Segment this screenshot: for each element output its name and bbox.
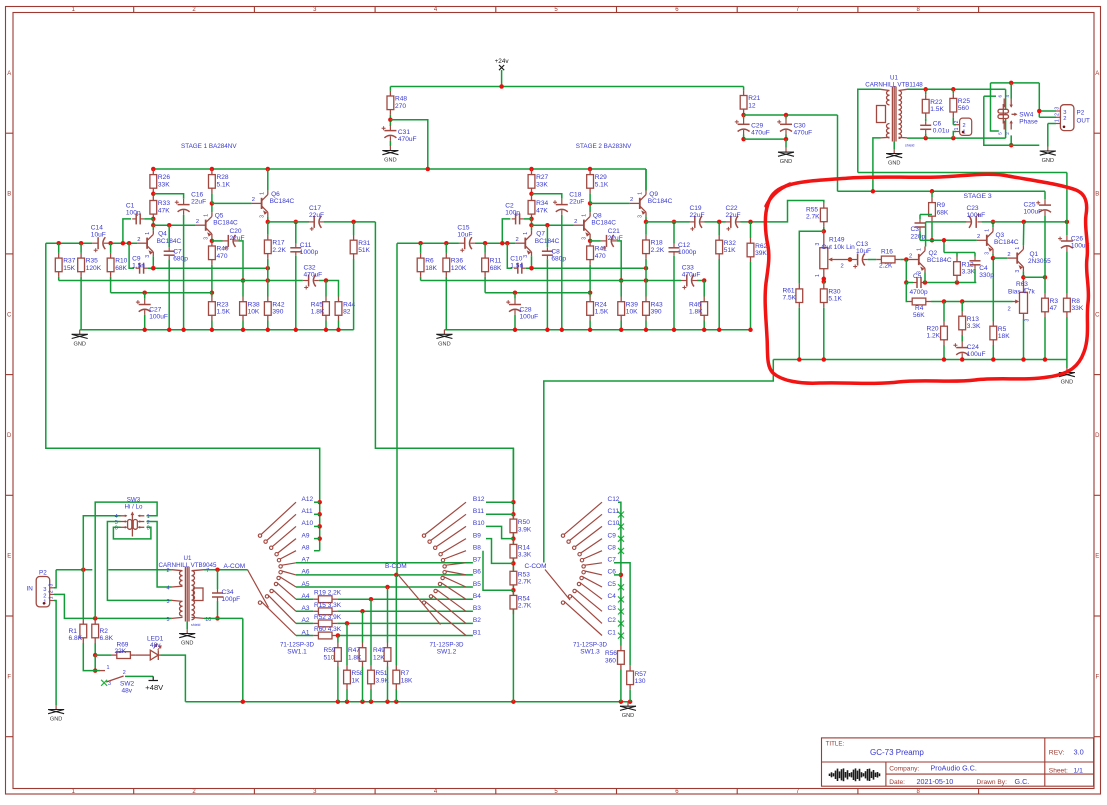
junction: [717, 328, 722, 333]
switch contact B1: [425, 601, 466, 635]
svg-text:SW4: SW4: [1019, 111, 1033, 118]
wire: [204, 617, 243, 619]
svg-text:C10: C10: [510, 256, 522, 263]
junction: [167, 223, 172, 228]
wire: [991, 82, 1040, 84]
junction: [317, 524, 322, 529]
svg-text:2: 2: [167, 568, 170, 574]
wire: [514, 315, 516, 330]
svg-text:120K: 120K: [451, 265, 467, 272]
svg-text:R18: R18: [651, 240, 663, 247]
wire: [589, 203, 591, 212]
switch contact C5: [583, 577, 602, 587]
svg-text:B4: B4: [473, 593, 481, 600]
svg-text:2: 2: [196, 219, 199, 225]
svg-text:270: 270: [395, 103, 406, 110]
wire: [314, 501, 320, 503]
svg-text:1.5n: 1.5n: [510, 263, 523, 270]
resistor R10: [107, 253, 114, 277]
wire: [389, 141, 391, 146]
svg-text:Out 10k Lin: Out 10k Lin: [822, 244, 856, 251]
wire: [337, 635, 473, 637]
wire: [445, 277, 447, 330]
junction: [702, 328, 707, 333]
capacitor C4: [970, 257, 981, 269]
junction: [991, 357, 996, 362]
svg-text:39K: 39K: [755, 250, 767, 257]
svg-text:100uF: 100uF: [1024, 209, 1043, 216]
resistor: [313, 608, 337, 615]
junction: [426, 167, 431, 172]
switch contact C2: [571, 595, 602, 623]
svg-text:C8: C8: [551, 249, 560, 256]
wire: [152, 256, 154, 268]
svg-text:470: 470: [217, 253, 228, 260]
wire SW3 pin5 to xfmr pin3: [107, 522, 171, 601]
svg-text:100p: 100p: [505, 210, 520, 217]
svg-text:1: 1: [1015, 247, 1021, 250]
svg-text:C26: C26: [1071, 236, 1083, 243]
wire: [338, 321, 340, 330]
junction: [545, 328, 550, 333]
junction: [511, 588, 516, 593]
svg-text:C21: C21: [608, 228, 620, 235]
wire: [924, 273, 926, 283]
switch contact A7: [282, 563, 296, 565]
svg-text:2: 2: [1007, 252, 1010, 258]
svg-text:18K: 18K: [401, 677, 413, 684]
svg-text:18K: 18K: [998, 333, 1010, 340]
wire row A5-B5: [296, 586, 473, 588]
wire: [920, 239, 932, 241]
wire: [267, 169, 269, 190]
wire to C-COM: [544, 360, 774, 563]
junction: [822, 357, 827, 362]
wire: [931, 191, 933, 197]
svg-text:R57: R57: [635, 671, 647, 678]
junction: [529, 266, 534, 271]
wire: [296, 598, 313, 600]
wire: [645, 169, 647, 190]
wire: [974, 253, 976, 257]
wire: [645, 169, 647, 190]
svg-text:C13: C13: [856, 241, 868, 248]
svg-text:5.1K: 5.1K: [595, 181, 609, 188]
svg-text:220p: 220p: [911, 233, 926, 240]
wire GND bus stage 2: [444, 329, 750, 331]
svg-text:STAGE 2 BA283NV: STAGE 2 BA283NV: [576, 143, 632, 150]
junction: [360, 609, 365, 614]
capacitor C6: [920, 121, 931, 133]
svg-text:33K: 33K: [536, 181, 548, 188]
wire to B-COM: [396, 243, 398, 575]
svg-text:shield: shield: [191, 623, 200, 627]
wire: [589, 321, 591, 330]
junction: [266, 266, 271, 271]
wire SW3 pin4 to R1: [83, 516, 120, 619]
wire GND bus stage 1: [80, 329, 354, 331]
svg-text:F: F: [1095, 674, 1099, 680]
svg-text:10K: 10K: [248, 309, 260, 316]
wire: [217, 570, 219, 589]
wire: [919, 231, 921, 240]
junction: [930, 189, 935, 194]
wire: [484, 243, 486, 253]
wire: [961, 358, 963, 360]
svg-text:2.7K: 2.7K: [518, 603, 532, 610]
svg-text:R46: R46: [689, 301, 701, 308]
svg-text:2: 2: [137, 237, 140, 243]
wire: [111, 292, 212, 294]
junction: [871, 189, 876, 194]
wire: [242, 281, 244, 297]
capacitor C26: [1058, 235, 1073, 251]
junction: [294, 328, 299, 333]
svg-text:C17: C17: [309, 205, 321, 212]
wire: [485, 292, 590, 294]
svg-text:2: 2: [1063, 116, 1066, 122]
switch contact B11: [431, 514, 466, 540]
junction: [923, 87, 928, 92]
junction: [210, 167, 215, 172]
svg-text:33K: 33K: [158, 181, 170, 188]
transistor Q7: [515, 230, 531, 256]
junction: [784, 137, 789, 142]
svg-text:R34: R34: [536, 200, 548, 207]
junction: [127, 241, 132, 246]
ground GND transformer: [186, 629, 188, 634]
resistor R11: [482, 253, 489, 277]
svg-text:R40: R40: [217, 246, 229, 253]
wire: [58, 277, 60, 281]
svg-text:22uF: 22uF: [191, 199, 206, 206]
svg-text:1.8K: 1.8K: [689, 309, 703, 316]
svg-text:BC184C: BC184C: [213, 220, 238, 227]
junction: [388, 117, 393, 122]
junction: [210, 290, 215, 295]
resistor R41: [587, 241, 594, 265]
wire: [925, 118, 927, 121]
wire: [445, 243, 447, 253]
junction: [336, 699, 341, 704]
resistor R23: [209, 297, 216, 321]
svg-text:GND: GND: [622, 713, 634, 719]
svg-text:15K: 15K: [63, 265, 75, 272]
wire V+ rail stages 1-2: [153, 168, 646, 170]
junction: [822, 229, 827, 234]
svg-text:C12: C12: [608, 496, 620, 503]
wire: [183, 215, 185, 330]
svg-text:C11: C11: [608, 508, 620, 515]
svg-text:A: A: [1095, 71, 1099, 77]
wire: [743, 115, 745, 119]
svg-text:R54: R54: [518, 596, 530, 603]
wiper SW1.3: [545, 570, 570, 601]
wire: [95, 670, 100, 672]
wire: [58, 243, 60, 253]
wire: [337, 667, 339, 702]
svg-text:3: 3: [48, 584, 54, 587]
svg-text:R11: R11: [490, 258, 502, 265]
resistor R43: [643, 297, 650, 321]
wire: [926, 221, 967, 223]
svg-text:C18: C18: [569, 192, 581, 199]
svg-text:B3: B3: [473, 605, 481, 612]
svg-text:5.1K: 5.1K: [828, 296, 842, 303]
wire: [925, 89, 927, 94]
junction: [702, 278, 707, 283]
junction: [848, 257, 853, 262]
wire: [992, 258, 994, 321]
resistor R29: [587, 169, 594, 193]
wire: [314, 538, 320, 540]
wire: [395, 575, 397, 665]
wire top feed: [858, 172, 1067, 174]
svg-text:560: 560: [958, 105, 969, 112]
capacitor C18: [553, 199, 568, 215]
capacitor C16: [175, 199, 190, 215]
junction: [324, 278, 329, 283]
wire to stage 3: [873, 138, 881, 191]
wire: [906, 282, 913, 284]
junction: [181, 328, 186, 333]
wire to stage rail: [390, 120, 427, 169]
svg-text:2: 2: [252, 197, 255, 203]
svg-text:Q2: Q2: [929, 250, 938, 257]
wire: [952, 117, 954, 125]
svg-text:A10: A10: [302, 520, 314, 527]
svg-text:E: E: [7, 554, 11, 560]
junction: [241, 328, 246, 333]
wire: [370, 689, 372, 702]
junction: [672, 220, 677, 225]
power +48V: [149, 676, 159, 680]
wire: [387, 587, 389, 643]
switch contact B5: [444, 577, 466, 587]
svg-text:R8: R8: [1072, 298, 1081, 305]
wire: [296, 610, 313, 612]
svg-text:3: 3: [638, 215, 644, 218]
resistor R12: [954, 257, 961, 281]
svg-text:2.7K: 2.7K: [806, 214, 820, 221]
svg-text:C2: C2: [505, 203, 514, 210]
wire: [94, 655, 96, 671]
resistor R28: [209, 169, 216, 193]
svg-text:BC184C: BC184C: [591, 220, 616, 227]
resistor R35: [78, 253, 85, 277]
svg-text:3: 3: [203, 237, 209, 240]
junction: [210, 328, 215, 333]
svg-text:2: 2: [123, 670, 126, 676]
svg-text:R7: R7: [401, 670, 410, 677]
svg-text:2: 2: [43, 593, 46, 599]
junction: [500, 241, 505, 246]
wire: [984, 95, 996, 97]
capacitor C21: [601, 235, 617, 250]
junction: [1037, 109, 1042, 114]
freehand red circle around stage 3: [765, 174, 1088, 383]
wire: [944, 252, 975, 254]
junction: [151, 217, 156, 222]
wire: [217, 601, 219, 618]
wire: [110, 277, 112, 293]
junction: [167, 328, 172, 333]
junction: [545, 223, 550, 228]
svg-text:C33: C33: [682, 265, 694, 272]
svg-text:B11: B11: [473, 508, 484, 515]
svg-text:2: 2: [630, 197, 633, 203]
svg-text:shield: shield: [905, 144, 914, 148]
svg-text:B8: B8: [473, 545, 481, 552]
svg-text:1: 1: [48, 596, 54, 599]
resistor: [510, 566, 517, 590]
junction: [644, 220, 649, 225]
svg-text:Q8: Q8: [593, 213, 602, 220]
junction: [588, 290, 593, 295]
svg-text:18K: 18K: [425, 265, 437, 272]
svg-text:C20: C20: [230, 228, 242, 235]
wire: [848, 259, 852, 261]
svg-text:390: 390: [651, 309, 662, 316]
wire: [484, 277, 486, 293]
wire: [1066, 317, 1068, 360]
resistor: [313, 632, 337, 639]
logo waveform: [830, 768, 880, 781]
junction: [619, 699, 624, 704]
junction: [1021, 275, 1026, 280]
svg-text:C14: C14: [91, 225, 103, 232]
svg-text:22K: 22K: [115, 648, 127, 655]
resistor: [384, 643, 391, 667]
ground GND stage3: [1066, 368, 1068, 373]
switch contact A2: [268, 595, 296, 623]
junction: [588, 167, 593, 172]
wire: [531, 192, 533, 194]
resistor R30: [820, 284, 827, 308]
svg-text:C8: C8: [608, 545, 617, 552]
wire: [353, 222, 355, 235]
wire: [620, 670, 622, 702]
resistor R20: [941, 321, 948, 345]
capacitor C12: [669, 244, 680, 256]
wire: [242, 321, 244, 330]
wire: [123, 219, 131, 243]
svg-text:5.1K: 5.1K: [217, 181, 231, 188]
svg-text:R53: R53: [518, 571, 530, 578]
resistor: [313, 620, 337, 627]
junction: [511, 561, 516, 566]
switch contact C4: [580, 583, 602, 599]
junction: [317, 536, 322, 541]
ground GND: [1047, 147, 1049, 152]
ground GND bottom: [627, 702, 629, 707]
switch contact B7: [446, 563, 466, 565]
junction: [317, 512, 322, 517]
wire: [893, 142, 895, 150]
svg-text:2: 2: [574, 219, 577, 225]
svg-text:R20: R20: [927, 326, 939, 333]
svg-text:33K: 33K: [1072, 305, 1084, 312]
junction: [317, 500, 322, 505]
resistor R44: [335, 297, 342, 321]
svg-text:3: 3: [167, 599, 170, 605]
wire: [387, 667, 389, 702]
wire: [95, 654, 111, 656]
svg-text:R30: R30: [828, 289, 840, 296]
svg-text:B9: B9: [473, 532, 481, 539]
connector P2 OUT: [1060, 105, 1074, 131]
junction: [513, 328, 518, 333]
wire: [614, 574, 621, 576]
wire: [267, 321, 269, 330]
junction: [1021, 357, 1026, 362]
junction: [951, 136, 956, 141]
wire: [1066, 251, 1068, 293]
svg-text:C-COM: C-COM: [525, 563, 547, 570]
wire input line: [56, 569, 92, 571]
svg-text:2: 2: [954, 120, 960, 123]
resistor R16: [876, 256, 900, 263]
svg-text:C25: C25: [1024, 202, 1036, 209]
svg-text:22uF: 22uF: [690, 212, 705, 219]
capacitor C22: [725, 216, 741, 231]
wire: [211, 321, 213, 330]
wire: [925, 133, 927, 138]
wire: [211, 293, 213, 297]
resistor R26: [150, 169, 157, 193]
junction: [904, 257, 909, 262]
wire: [589, 265, 591, 293]
wire: [645, 259, 647, 281]
wire: [590, 240, 601, 242]
svg-text:R51: R51: [376, 670, 388, 677]
svg-text:+24v: +24v: [495, 58, 510, 65]
svg-text:C2: C2: [608, 617, 617, 624]
wire: [362, 611, 364, 642]
svg-text:2: 2: [48, 590, 54, 593]
svg-text:470uF: 470uF: [794, 130, 813, 137]
svg-text:5: 5: [998, 132, 1003, 135]
svg-text:A11: A11: [302, 508, 313, 515]
wire: [905, 283, 908, 302]
svg-text:C5: C5: [608, 581, 617, 588]
capacitor C11: [290, 244, 301, 256]
junction: [930, 238, 935, 243]
svg-text:3: 3: [108, 681, 111, 687]
svg-text:68K: 68K: [115, 265, 127, 272]
switch contact A10: [272, 526, 296, 546]
svg-text:100uF: 100uF: [967, 351, 986, 358]
wire: [486, 539, 513, 564]
wire: [907, 137, 1006, 139]
svg-text:GND: GND: [181, 641, 193, 647]
wire: [314, 525, 320, 527]
svg-text:R23: R23: [217, 301, 229, 308]
capacitor C7: [164, 247, 175, 259]
potentiometer R149 Out 10k Lin: [820, 231, 848, 278]
capacitor C8: [542, 247, 553, 259]
svg-text:R35: R35: [86, 258, 98, 265]
svg-text:Q3: Q3: [996, 232, 1005, 239]
resistor R27: [528, 169, 535, 193]
svg-text:SW1.1: SW1.1: [287, 649, 307, 656]
transistor Q3: [977, 227, 993, 253]
wire: [932, 239, 977, 241]
wire stage1 input to SW1.1: [46, 243, 320, 502]
svg-text:3: 3: [815, 243, 821, 246]
wire: [1044, 191, 1046, 199]
svg-text:R43: R43: [651, 301, 663, 308]
